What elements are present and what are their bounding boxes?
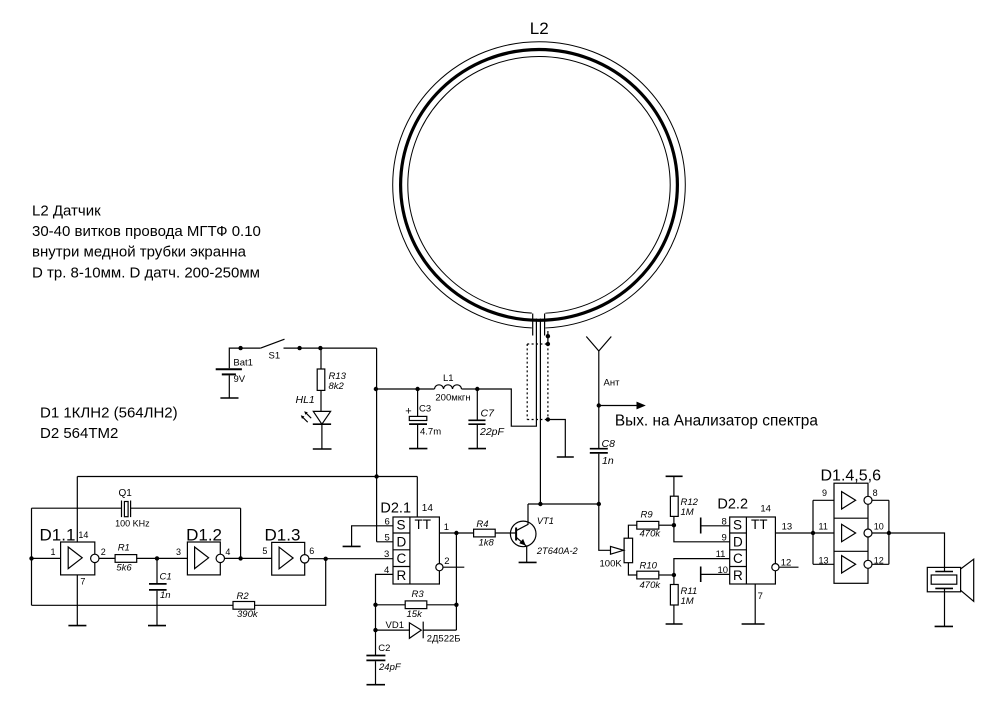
svg-text:1М: 1М	[681, 507, 694, 518]
wire D2.2 pin12 stub	[779, 566, 799, 568]
flip-flop D2.1 input column divider	[409, 517, 411, 584]
svg-text:Вых. на Анализатор спектра: Вых. на Анализатор спектра	[615, 413, 818, 430]
wire rail to potentiometer wiper	[599, 504, 611, 550]
svg-text:100K: 100K	[600, 559, 623, 570]
wire D1.3 out to D2.1 C	[309, 558, 393, 560]
LED HL1 arrow 2	[302, 417, 307, 422]
wire battery top	[229, 348, 260, 368]
svg-text:D1.1: D1.1	[40, 525, 76, 544]
ground D2.2 pin7	[742, 623, 765, 625]
svg-text:3: 3	[384, 549, 389, 560]
svg-text:10: 10	[718, 565, 729, 576]
svg-text:C: C	[733, 551, 743, 566]
flip-flop D2.2 cell lines	[730, 533, 747, 567]
node supply/C3 branch dot	[374, 387, 378, 391]
coil notch right wall	[544, 314, 546, 336]
node coil lead on rail dot	[538, 502, 542, 506]
ground D2.1 S	[343, 545, 361, 547]
battery Bat1 negative plate	[222, 373, 236, 375]
resistor R3	[405, 601, 427, 609]
ground speaker	[935, 625, 953, 627]
inductor L1	[435, 385, 462, 389]
node antenna line on rail dot	[597, 502, 601, 506]
speaker inner rect	[931, 575, 957, 584]
transistor VT1 emitter arrow	[519, 539, 526, 546]
wire coil right lead down to collector rail	[539, 319, 541, 505]
node R3 right dot	[454, 603, 458, 607]
wire C3 to L1	[418, 388, 435, 390]
wire R11 to ground bar	[673, 605, 675, 624]
svg-text:9: 9	[722, 532, 727, 543]
switch S1 blade	[261, 339, 285, 348]
diode VD1 triangle	[409, 623, 421, 639]
svg-text:S: S	[397, 517, 406, 532]
wire node to D2.2 D	[674, 525, 730, 542]
svg-text:VT1: VT1	[537, 516, 554, 526]
speaker horn	[961, 559, 974, 601]
wire output arrow line	[599, 405, 637, 407]
wire VCC rail horizontal	[77, 476, 417, 478]
wire D2.1 R lead	[376, 574, 394, 655]
inverter box dividers	[834, 518, 868, 551]
LED HL1 cathode bar	[313, 423, 331, 425]
svg-text:C2: C2	[378, 643, 390, 654]
wire D2.1 pin1 out	[439, 532, 473, 534]
svg-text:TT: TT	[415, 517, 432, 532]
svg-text:R1: R1	[118, 543, 130, 554]
wire HL1 to ground	[321, 424, 323, 449]
svg-text:22pF: 22pF	[479, 426, 505, 438]
ground bar D2.2 S	[700, 518, 702, 534]
capacitor C1 plate bottom	[149, 589, 167, 591]
svg-text:8: 8	[722, 516, 727, 527]
transistor VT1 circle	[510, 521, 536, 547]
svg-text:12: 12	[781, 558, 792, 569]
wire C7 top lead	[476, 389, 478, 420]
diode VD1 cathode bar	[422, 622, 424, 639]
svg-text:30-40 витков провода МГТФ 0.10: 30-40 витков провода МГТФ 0.10	[32, 223, 261, 240]
LED HL1 triangle	[313, 411, 330, 424]
svg-text:R10: R10	[640, 561, 658, 572]
node shield tap dot upper	[546, 334, 550, 338]
node rail-supply dot	[374, 474, 378, 478]
svg-text:D1.4,5,6: D1.4,5,6	[821, 468, 882, 485]
coil L2 winding (thick circle)	[401, 50, 678, 321]
wire Q1-feedback vertical	[455, 533, 457, 630]
svg-text:100 KHz: 100 KHz	[115, 519, 150, 529]
svg-text:R: R	[733, 568, 743, 583]
inverter D1.5 bubble	[864, 529, 872, 537]
svg-text:7: 7	[80, 577, 85, 587]
ground C3	[409, 448, 427, 450]
wire collector rail	[528, 503, 599, 505]
wire D2.1 S to ground	[352, 526, 393, 547]
svg-text:внутри медной трубки экранна: внутри медной трубки экранна	[32, 244, 247, 261]
wire D1.1 pin7 to ground	[76, 575, 78, 626]
inverter D1.4 triangle	[842, 492, 856, 509]
wire pot bottom to R10	[628, 563, 636, 575]
wire D2.2 S lead	[701, 525, 730, 527]
svg-text:D2.2: D2.2	[717, 497, 748, 513]
node R1/C1 dot	[155, 556, 159, 560]
svg-text:2: 2	[101, 547, 106, 557]
svg-text:Ант: Ант	[604, 378, 621, 389]
ground C1	[148, 625, 166, 627]
wire crystal right drop	[240, 508, 242, 558]
svg-text:24pF: 24pF	[378, 662, 402, 673]
svg-text:C3: C3	[419, 404, 431, 415]
svg-text:5k6: 5k6	[116, 563, 132, 574]
ground bar D2.2 R	[700, 567, 702, 583]
svg-text:470k: 470k	[640, 529, 662, 540]
svg-text:D2.1: D2.1	[380, 500, 411, 516]
resistor R1	[115, 555, 137, 563]
node D1.3 out dot	[324, 557, 328, 561]
wire R13 to HL1	[320, 390, 322, 411]
capacitor C8 plate bottom	[590, 452, 608, 454]
node input bus dot	[811, 531, 815, 535]
svg-text:13: 13	[819, 555, 829, 565]
wire C1 to ground	[156, 591, 158, 626]
wire input to D1.1	[32, 557, 61, 559]
svg-text:1k8: 1k8	[479, 538, 495, 549]
node output arrow dot	[597, 403, 601, 407]
inverter D1.2 bubble	[216, 554, 224, 562]
svg-text:D: D	[733, 534, 743, 549]
inverter D1.6 bubble	[864, 560, 872, 568]
svg-text:L2 Датчик: L2 Датчик	[32, 202, 101, 219]
crystal Q1 left plate	[121, 501, 123, 518]
node C7 top dot	[475, 387, 479, 391]
svg-text:15k: 15k	[407, 609, 424, 620]
capacitor C3 plate bottom	[409, 423, 427, 425]
wire crystal top line	[32, 507, 241, 509]
wire R13 top lead	[320, 348, 322, 369]
svg-text:14: 14	[422, 503, 434, 514]
node R9/R12 dot	[672, 523, 676, 527]
inverter D1.3 bubble	[301, 555, 309, 563]
ground VT1 emitter	[519, 561, 537, 563]
svg-text:Bat1: Bat1	[233, 358, 253, 369]
svg-text:6: 6	[309, 546, 314, 556]
inverter D1.4-6 box	[834, 483, 868, 583]
node D1.2 out dot	[238, 556, 242, 560]
wire C3 to ground	[417, 425, 419, 449]
ground C7	[468, 448, 486, 450]
transistor VT1 base bar	[515, 528, 517, 541]
wire D1.4-6 input bus	[812, 500, 814, 564]
coil bottom notch erase	[532, 306, 546, 337]
flip-flop D2.1 box	[393, 517, 439, 584]
flip-flop D2.2 box	[730, 517, 776, 584]
wire crystal left drop	[31, 508, 33, 558]
capacitor C8 plate top	[590, 448, 608, 450]
ground C2	[367, 684, 386, 686]
wire feedback left vertical	[31, 558, 33, 605]
svg-text:R4: R4	[476, 519, 488, 530]
resistor R11	[670, 585, 678, 606]
ground D1.1 pin7	[68, 625, 86, 627]
node battery-switch dot	[238, 346, 242, 350]
coil L2 shield ring inner circle	[408, 57, 670, 314]
battery Bat1 positive plate	[216, 368, 242, 370]
capacitor C2 plate bottom	[366, 659, 385, 661]
flip-flop D2.1 cell lines	[393, 533, 410, 567]
svg-text:6: 6	[385, 516, 390, 527]
resistor R10	[637, 571, 659, 579]
wire D1.4-6 output bus	[888, 500, 890, 564]
inverter D1.1 triangle	[68, 547, 82, 569]
wire pot top to R9	[628, 525, 636, 538]
inverter D1.6 triangle	[842, 556, 856, 573]
inverter D1.1 bubble	[91, 554, 99, 562]
svg-text:VD1: VD1	[386, 620, 404, 631]
flip-flop D2.2 pin12 bubble	[772, 564, 779, 571]
svg-text:L1: L1	[443, 373, 454, 384]
svg-text:11: 11	[819, 522, 828, 532]
wire D2.2 pin7 to ground	[754, 584, 756, 624]
wire VD1 right lead	[423, 629, 456, 631]
capacitor C3 plate top (rect, positive)	[409, 416, 427, 420]
transistor VT1 collector	[516, 504, 528, 531]
svg-text:1: 1	[444, 522, 449, 533]
wire R1 to node	[137, 557, 188, 559]
wire C8 to rail	[598, 454, 600, 504]
potentiometer wiper arrow	[611, 546, 624, 554]
inverter D1.1 box	[61, 542, 95, 575]
wire node to D2.2 C	[674, 559, 730, 575]
wire D1.2 out to D1.3	[225, 557, 272, 559]
svg-text:4: 4	[384, 565, 389, 576]
antenna V arms	[586, 337, 611, 352]
wire L1 to C7	[462, 388, 478, 390]
svg-text:D тр. 8-10мм. D датч. 200-250м: D тр. 8-10мм. D датч. 200-250мм	[32, 265, 260, 282]
transistor VT1 emitter	[516, 537, 527, 562]
svg-text:1n: 1n	[602, 455, 614, 467]
svg-text:2Т640А-2: 2Т640А-2	[536, 546, 579, 556]
svg-text:R2: R2	[237, 591, 250, 602]
node R3 left dot	[373, 603, 377, 607]
svg-text:C: C	[397, 551, 407, 566]
wire VD1 left lead	[376, 629, 410, 631]
capacitor C2 plate top	[366, 655, 385, 657]
wire D2.1 D to VCC	[377, 541, 393, 543]
screen (dashed cable shield box)	[527, 344, 548, 420]
svg-text:5: 5	[385, 532, 390, 543]
inverter D1.2 box	[187, 542, 220, 575]
node VD1 left dot	[373, 628, 377, 632]
node shield tap dot lower	[546, 342, 550, 346]
wire R9 to node	[659, 524, 674, 526]
wire inputs to boxes	[813, 500, 834, 564]
node shield bottom dot	[546, 417, 550, 421]
inverter D1.5 triangle	[842, 524, 856, 541]
wire switch to rail	[284, 347, 377, 349]
svg-text:HL1: HL1	[296, 394, 315, 406]
arrowhead output	[637, 402, 646, 410]
inverter D1.3 box	[272, 542, 305, 575]
inverter D1.2 triangle	[195, 547, 209, 569]
svg-text:R9: R9	[641, 510, 654, 521]
svg-text:TT: TT	[751, 517, 768, 532]
svg-text:8k2: 8k2	[329, 381, 345, 392]
svg-text:C1: C1	[160, 572, 172, 583]
wire D2.2 pin13 out	[775, 532, 813, 534]
wire D2.1 pin14 drop	[416, 477, 418, 518]
antenna mast	[598, 351, 600, 448]
wire R3 right lead	[427, 604, 457, 606]
potentiometer 100K body	[624, 538, 633, 563]
svg-text:2: 2	[444, 556, 449, 567]
ground shield	[557, 456, 574, 458]
speaker top bar	[935, 571, 953, 573]
svg-text:D1.2: D1.2	[186, 525, 222, 544]
wire R4 to VT1 base	[495, 532, 516, 534]
wire main supply vertical	[376, 348, 378, 542]
wire outputs to bus	[872, 500, 889, 564]
resistor R2	[233, 602, 255, 610]
capacitor C1 plate top	[149, 583, 167, 585]
wire coil left lead down then to supply	[477, 319, 536, 427]
svg-text:1n: 1n	[160, 590, 171, 601]
resistor R9	[637, 521, 659, 529]
svg-text:D2 564ТМ2: D2 564ТМ2	[40, 425, 118, 442]
svg-text:9: 9	[822, 488, 827, 498]
node C3 top dot	[415, 387, 419, 391]
crystal Q1 right plate	[130, 501, 132, 518]
wire D2.2 R lead	[701, 573, 730, 575]
ground R11	[666, 623, 683, 625]
inverter D1.4 bubble	[864, 496, 872, 504]
svg-text:C8: C8	[602, 438, 616, 450]
svg-text:14: 14	[78, 530, 88, 540]
svg-text:D1.3: D1.3	[265, 525, 301, 544]
wire R12 bottom lead	[673, 516, 675, 525]
svg-text:R: R	[397, 568, 407, 583]
wire output to speaker	[889, 533, 945, 572]
node R13 top dot	[318, 346, 322, 350]
svg-text:1: 1	[51, 547, 56, 557]
svg-text:L2: L2	[530, 19, 549, 38]
wire D1.1 out to R1	[99, 557, 115, 559]
svg-text:S1: S1	[269, 351, 281, 362]
wire shield to ground	[548, 420, 565, 458]
svg-text:D: D	[397, 534, 407, 549]
capacitor C7 plate bottom	[468, 423, 485, 425]
speaker body	[927, 567, 960, 591]
flip-flop D2.2 input column divider	[745, 517, 747, 584]
wire shield tap to dashed screen	[547, 331, 549, 344]
svg-text:9V: 9V	[234, 374, 246, 385]
coil notch left wall	[532, 314, 534, 336]
node output bus dot	[887, 531, 891, 535]
svg-text:1М: 1М	[681, 596, 694, 607]
wire R12 to +V bar	[673, 476, 675, 496]
wire R2 to D1.3 output	[255, 559, 326, 606]
wire C2 to ground	[375, 661, 377, 685]
coil L2 outer shield ring outer circle	[393, 42, 686, 328]
svg-text:Q1: Q1	[119, 488, 133, 499]
LED HL1 arrow 1	[306, 413, 311, 418]
wire R10 to node	[659, 574, 674, 576]
wire C1 top lead	[156, 558, 158, 583]
svg-text:7: 7	[758, 591, 763, 602]
capacitor C7 plate top	[468, 419, 485, 421]
svg-text:D1 1КЛН2 (564ЛН2): D1 1КЛН2 (564ЛН2)	[40, 405, 178, 422]
svg-text:200мкгн: 200мкгн	[435, 393, 470, 404]
flip-flop D2.1 pin2 bubble	[436, 564, 443, 571]
wire C7 to ground	[476, 425, 478, 449]
svg-text:12: 12	[874, 555, 884, 565]
svg-text:470k: 470k	[640, 580, 662, 591]
svg-text:+: +	[405, 405, 411, 417]
svg-text:4.7m: 4.7m	[420, 427, 441, 438]
node D1.1 input dot	[29, 556, 33, 560]
node pin1/feedback dot	[454, 531, 458, 535]
wire R11 top lead	[673, 575, 675, 585]
node R10/R11 dot	[672, 573, 676, 577]
wire C3 top lead	[417, 389, 419, 416]
wire D1.1 pin14 drop	[76, 477, 78, 543]
svg-text:5: 5	[262, 546, 267, 556]
crystal Q1 body	[124, 502, 128, 517]
svg-text:R3: R3	[412, 589, 425, 600]
ground HL1	[313, 448, 332, 450]
wire feedback bottom to R2	[32, 604, 234, 606]
svg-text:13: 13	[782, 521, 793, 532]
wire R3 left lead	[376, 604, 406, 606]
svg-text:3: 3	[176, 547, 181, 557]
resistor R13	[317, 369, 325, 390]
wire supply to C3	[377, 388, 418, 390]
svg-text:8: 8	[873, 488, 878, 498]
svg-text:10: 10	[874, 522, 884, 532]
svg-text:14: 14	[760, 504, 771, 515]
svg-text:390k: 390k	[237, 609, 259, 620]
svg-text:C7: C7	[481, 407, 496, 419]
wire speaker to ground	[944, 588, 946, 626]
power bar R12	[666, 475, 683, 477]
wire D2.1 pin2 stub	[443, 566, 464, 568]
inverter D1.3 triangle	[279, 547, 293, 569]
wire battery bottom to ground	[228, 375, 230, 398]
svg-text:4: 4	[225, 547, 230, 557]
svg-text:2Д522Б: 2Д522Б	[427, 634, 461, 645]
speaker bottom bar	[935, 587, 953, 589]
svg-text:11: 11	[716, 549, 726, 560]
node switch contact dot	[297, 346, 301, 350]
ground battery	[220, 397, 238, 399]
resistor R4	[474, 529, 496, 537]
svg-text:S: S	[733, 517, 742, 532]
resistor R12	[670, 496, 678, 516]
